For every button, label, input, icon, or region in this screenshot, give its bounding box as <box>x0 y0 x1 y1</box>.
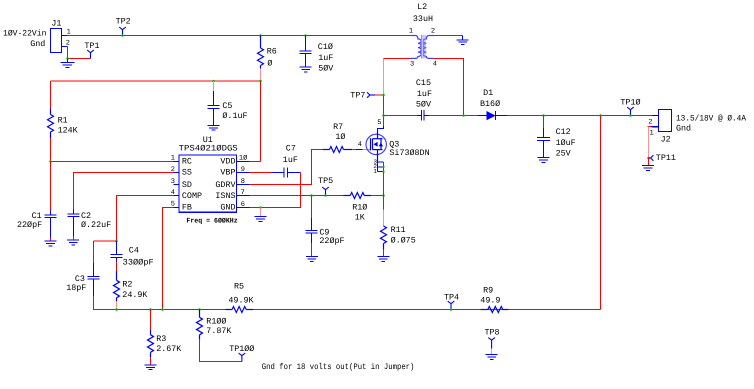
wire COMP jog to C3 <box>94 240 117 242</box>
connector J2 <box>652 110 672 132</box>
label J2 <box>661 135 671 145</box>
wire VDD pin row <box>250 161 261 163</box>
svg-text:1: 1 <box>650 129 654 137</box>
label R2 <box>122 279 132 289</box>
label 10uF <box>556 138 576 148</box>
svg-text:Ø.Ø75: Ø.Ø75 <box>391 235 416 245</box>
wire R3 bottom lead <box>150 357 152 365</box>
test point TP1 <box>87 50 94 58</box>
wire L2 pin2 to ground <box>434 35 463 37</box>
label C9 <box>319 227 329 237</box>
label 3300pF <box>123 257 154 267</box>
wire GND pin stub down <box>260 208 262 217</box>
label TP4 <box>444 292 459 302</box>
label 1K <box>355 213 366 223</box>
label Gnd <box>30 39 45 49</box>
svg-text:8: 8 <box>241 178 245 186</box>
svg-text:18pF: 18pF <box>66 283 86 293</box>
label GDRV <box>215 180 235 190</box>
label J1 pin2 <box>66 39 70 47</box>
test point TP2 <box>119 27 126 35</box>
svg-text:25V: 25V <box>556 149 571 159</box>
label TP10 <box>620 98 640 108</box>
test point TP7 <box>367 92 375 97</box>
svg-text:Gnd for 18 volts out(Put in Ju: Gnd for 18 volts out(Put in Jumper) <box>262 362 415 372</box>
svg-text:1uF: 1uF <box>283 155 298 165</box>
wire TP8 pin <box>491 349 493 355</box>
label L2 pin 4 <box>433 61 437 69</box>
test point TP4 <box>448 301 455 309</box>
svg-text:1ØuF: 1ØuF <box>556 138 576 148</box>
svg-text:1Ø: 1Ø <box>239 155 247 163</box>
ground TP8 <box>486 355 498 360</box>
capacitor C3 <box>88 263 100 296</box>
svg-text:C5: C5 <box>222 101 232 111</box>
label R6 <box>267 46 277 56</box>
resistor R11 <box>383 196 385 210</box>
label TP8 <box>485 327 500 337</box>
label 220pF <box>319 236 344 246</box>
capacitor C12 <box>543 116 545 129</box>
svg-text:R6: R6 <box>267 46 277 56</box>
test point TP5 <box>322 187 329 195</box>
wire R11 bottom lead <box>383 250 385 257</box>
label R5 <box>234 282 244 292</box>
node TP11 junction <box>647 157 650 160</box>
node R3 bus junction <box>149 308 152 311</box>
svg-text:Gnd: Gnd <box>30 39 45 49</box>
svg-text:COMP: COMP <box>182 191 202 201</box>
svg-text:7: 7 <box>241 189 245 197</box>
node C5 junction <box>212 80 215 83</box>
capacitor C15 <box>384 115 418 117</box>
label J1 pin1 <box>67 28 71 36</box>
label pin 3 <box>171 178 175 186</box>
label TP1 <box>84 41 99 51</box>
node TP5 junction <box>324 194 327 197</box>
resistor R1 <box>48 109 54 139</box>
ground C2 <box>67 240 79 245</box>
wire C2 bottom lead <box>73 237 75 241</box>
wire J1 pin2 to ground <box>68 47 91 59</box>
label U1 <box>203 135 213 145</box>
svg-text:Freq = 6ØØKHz: Freq = 6ØØKHz <box>186 217 237 225</box>
node GND junction <box>259 206 262 209</box>
wire source to R10 node <box>383 162 385 195</box>
wire C15 to L2 pin4 node <box>429 115 478 117</box>
label R1 <box>58 116 68 126</box>
svg-text:SS: SS <box>182 168 192 178</box>
label R10 <box>352 202 367 212</box>
wire C3 bottom to bus <box>94 296 226 310</box>
label Q3 <box>389 140 399 150</box>
svg-text:TP8: TP8 <box>485 327 500 337</box>
resistor R6 <box>258 36 264 69</box>
resistor R7 <box>323 147 352 153</box>
label 25V <box>556 149 571 159</box>
svg-text:1uF: 1uF <box>318 53 333 63</box>
label L2 <box>417 2 427 12</box>
svg-text:TP2: TP2 <box>116 17 131 27</box>
label R100 <box>206 316 226 326</box>
ground TP11 <box>642 166 654 171</box>
svg-text:Gnd: Gnd <box>676 124 691 134</box>
svg-text:2: 2 <box>648 118 652 126</box>
node TP2 junction <box>121 34 124 37</box>
svg-text:C1Ø: C1Ø <box>318 42 333 52</box>
label TP11 <box>656 153 676 163</box>
label C15 50V <box>416 100 431 110</box>
svg-text:1ØV-22Vin: 1ØV-22Vin <box>3 28 46 38</box>
svg-text:13.5/18V @ Ø.4A: 13.5/18V @ Ø.4A <box>676 113 747 123</box>
svg-text:J2: J2 <box>661 135 671 145</box>
node C12 junction <box>542 114 545 117</box>
svg-text:VBP: VBP <box>220 168 235 178</box>
svg-text:124K: 124K <box>58 126 79 136</box>
svg-text:1uF: 1uF <box>417 89 432 99</box>
resistor R2 <box>114 271 120 301</box>
label 0.22uF <box>81 220 111 230</box>
node TP4 junction <box>450 308 453 311</box>
label C3 <box>75 274 85 284</box>
svg-text:3: 3 <box>171 178 175 186</box>
label L2 pin 3 <box>410 61 414 69</box>
svg-text:TP1Ø: TP1Ø <box>620 98 640 108</box>
ground C1 <box>45 241 57 246</box>
resistor R100 <box>197 310 203 340</box>
svg-text:R11: R11 <box>391 225 406 235</box>
wire TP11 to ground <box>648 158 650 166</box>
label pin 9 <box>241 166 245 174</box>
label Gnd for 18 volts out <box>262 362 415 372</box>
node R6 bottom junction <box>259 80 262 83</box>
svg-text:R1: R1 <box>58 116 68 126</box>
label Q3 pin 1 <box>373 168 377 175</box>
label 220pF <box>17 220 42 230</box>
label R11 <box>391 225 406 235</box>
label Q3 pin 3 <box>373 158 377 165</box>
wire SS row <box>74 173 174 210</box>
label C12 <box>556 127 571 137</box>
svg-text:6: 6 <box>241 201 245 209</box>
svg-text:VDD: VDD <box>220 157 235 167</box>
test point TP11 <box>649 155 654 161</box>
wire R1 bottom to RC node <box>50 138 52 162</box>
svg-text:24.9K: 24.9K <box>122 290 148 300</box>
wire C1 bottom lead <box>50 238 52 241</box>
node C10 junction <box>304 34 307 37</box>
svg-text:Ø.22uF: Ø.22uF <box>81 220 111 230</box>
node FB bus junction <box>161 308 164 311</box>
resistor R9 <box>481 307 509 313</box>
svg-text:D1: D1 <box>483 88 493 98</box>
resistor R5 <box>225 307 253 313</box>
svg-text:Si73Ø8DN: Si73Ø8DN <box>389 148 429 158</box>
wire TP7 to drain riser <box>375 94 383 96</box>
wire R1 top lead <box>50 81 52 109</box>
label GND <box>220 203 235 213</box>
label 7.87K <box>206 326 232 336</box>
capacitor C7 <box>272 167 301 177</box>
wire gate pin light <box>363 149 371 151</box>
label pin 2 <box>171 166 175 174</box>
svg-text:R3: R3 <box>156 334 166 344</box>
svg-text:B16Ø: B16Ø <box>480 99 500 109</box>
label C7 <box>286 144 296 154</box>
wire C1 top lead <box>50 162 52 211</box>
test point TP100 <box>239 353 246 361</box>
label TPS40210DGS <box>179 144 238 154</box>
node TP10 junction <box>629 114 632 117</box>
ground U1 <box>255 217 267 222</box>
wire FB row <box>163 208 174 310</box>
svg-text:5ØV: 5ØV <box>416 100 431 110</box>
connector J1 <box>51 29 68 53</box>
svg-text:22ØpF: 22ØpF <box>319 236 344 246</box>
svg-text:ISNS: ISNS <box>215 191 235 201</box>
label COMP <box>182 191 202 201</box>
label Gnd out <box>676 124 691 134</box>
label pin 8 <box>241 178 245 186</box>
label 2.67K <box>156 344 182 354</box>
wire drain riser lower <box>383 95 385 126</box>
svg-text:GND: GND <box>220 203 235 213</box>
label SD <box>182 180 192 190</box>
wire C4 to R2 <box>116 262 118 272</box>
label TP2 <box>116 17 131 27</box>
node RC junction <box>49 160 52 163</box>
label FB <box>182 203 192 213</box>
capacitor C9 <box>311 196 313 219</box>
label 50V <box>318 64 333 74</box>
label SS <box>182 168 192 178</box>
wire ISNS row <box>250 195 344 197</box>
svg-text:1K: 1K <box>355 213 366 223</box>
label L2 pin 1 <box>409 27 413 35</box>
wire C9 bottom lead <box>311 243 313 257</box>
label TP100 <box>229 344 254 354</box>
node C9 junction <box>310 194 313 197</box>
L2 core lines <box>421 35 425 59</box>
svg-text:R5: R5 <box>234 282 244 292</box>
svg-text:5ØV: 5ØV <box>318 64 333 74</box>
label pin 1 <box>171 155 175 163</box>
node TP7 junction <box>382 94 385 97</box>
ground J1 <box>61 59 75 68</box>
svg-text:4: 4 <box>358 141 362 149</box>
svg-text:R9: R9 <box>483 285 493 295</box>
capacitor C2 <box>68 210 80 237</box>
label Freq = 600KHz <box>186 217 237 225</box>
wire GND pin row <box>250 207 261 209</box>
svg-text:7.87K: 7.87K <box>206 326 232 336</box>
svg-text:9: 9 <box>241 166 245 174</box>
label pin 5 <box>171 201 175 209</box>
source pin stubs <box>378 162 384 172</box>
svg-text:Ø: Ø <box>267 58 272 68</box>
node R100 bus junction <box>198 308 201 311</box>
node source pin 2 <box>382 166 384 168</box>
wire RC row <box>51 161 174 163</box>
wire VBP row <box>250 172 272 174</box>
label C15 1uF <box>417 89 432 99</box>
label 49.9K <box>228 295 254 305</box>
wire VDD riser <box>260 81 262 162</box>
wire R100 to TP100 <box>200 340 242 362</box>
node COMP junction <box>115 240 118 243</box>
svg-text:2.67K: 2.67K <box>156 344 182 354</box>
transistor Q3 <box>366 134 386 154</box>
capacitor C10 <box>300 36 312 68</box>
label Q3 pin 2 <box>373 163 377 170</box>
wire R2 bottom pin <box>116 301 118 309</box>
label 124K <box>58 126 79 136</box>
svg-text:1: 1 <box>171 155 175 163</box>
wire feedback riser <box>600 116 602 310</box>
label 0.1uF <box>222 111 247 121</box>
svg-text:R7: R7 <box>333 122 343 132</box>
svg-text:22ØpF: 22ØpF <box>17 220 42 230</box>
svg-text:33ØØpF: 33ØØpF <box>123 257 154 267</box>
wire R7 to gate <box>352 149 356 151</box>
label C4 <box>129 245 139 255</box>
ground C5 <box>208 125 220 130</box>
label C10 <box>318 42 333 52</box>
label L2 pin 2 <box>431 27 435 35</box>
test point TP10 <box>627 107 634 115</box>
label 0 <box>267 58 272 68</box>
wire gate lead blue <box>356 149 363 151</box>
op-amp U1 TPS40210DGS body <box>179 155 237 212</box>
label R7 <box>333 122 343 132</box>
node source pin 1 <box>382 170 384 172</box>
label 13.5/18V @ 0.4A <box>676 113 747 123</box>
label 1uF <box>318 53 333 63</box>
label ISNS <box>215 191 235 201</box>
ground L2 <box>457 36 469 45</box>
svg-text:R1Ø: R1Ø <box>352 202 367 212</box>
svg-text:5: 5 <box>377 119 381 127</box>
svg-text:FB: FB <box>182 203 192 213</box>
label RC <box>182 157 192 167</box>
svg-text:1Ø: 1Ø <box>335 132 345 142</box>
label 33uH <box>413 14 433 24</box>
ground C9 <box>306 257 318 262</box>
label B160 <box>480 99 500 109</box>
label TP7 <box>350 91 365 101</box>
svg-text:1: 1 <box>409 27 413 35</box>
pin 5 drain elbow <box>378 126 384 131</box>
svg-text:2: 2 <box>171 166 175 174</box>
label Q3 pin 5 <box>377 119 381 127</box>
capacitor C1 <box>45 211 57 238</box>
svg-text:L2: L2 <box>417 2 427 12</box>
svg-text:J1: J1 <box>51 19 61 29</box>
svg-text:TP11: TP11 <box>656 153 676 163</box>
label TP5 <box>318 176 333 186</box>
svg-text:R1ØØ: R1ØØ <box>206 316 226 326</box>
label Q3 pin 4 <box>358 141 362 149</box>
svg-text:1: 1 <box>373 168 377 175</box>
inductor L2 left winding <box>411 36 422 59</box>
label C1 <box>32 211 42 221</box>
svg-text:2: 2 <box>66 39 70 47</box>
svg-text:Ø.1uF: Ø.1uF <box>222 111 247 121</box>
label VBP <box>220 168 235 178</box>
svg-text:C12: C12 <box>556 127 571 137</box>
label pin 7 <box>241 189 245 197</box>
svg-text:GDRV: GDRV <box>215 180 235 190</box>
svg-text:RC: RC <box>182 157 192 167</box>
svg-text:33uH: 33uH <box>413 14 433 24</box>
svg-text:TP1: TP1 <box>84 41 99 51</box>
svg-text:2: 2 <box>431 27 435 35</box>
svg-text:R2: R2 <box>122 279 132 289</box>
test point TP8 <box>488 338 495 349</box>
wire L2 pin3 row <box>384 58 411 60</box>
pin stubs U1 left <box>174 162 180 208</box>
label R7 10 <box>335 132 345 142</box>
wire drain riser upper pin <box>383 59 385 96</box>
capacitor C4 <box>111 241 123 261</box>
svg-text:TPS4Ø21ØDGS: TPS4Ø21ØDGS <box>179 144 238 154</box>
wire J2 pin1 down <box>648 126 652 128</box>
svg-text:C7: C7 <box>286 144 296 154</box>
ground C12 <box>538 158 550 163</box>
wire R10 to R11 node <box>371 195 383 197</box>
label pin 6 <box>241 201 245 209</box>
label J2 pin 2 <box>648 118 652 126</box>
wire C3 top lead <box>93 241 95 263</box>
wire GDRV row <box>250 150 324 185</box>
svg-text:3: 3 <box>410 61 414 69</box>
wire COMP row <box>117 196 174 242</box>
label 18pF <box>66 283 86 293</box>
wire output row <box>507 115 652 117</box>
wire VDD rail horizontal <box>51 80 261 82</box>
pin stubs U1 right <box>237 162 250 208</box>
capacitor C5 <box>213 81 215 91</box>
wire C7 to GND net <box>261 173 301 208</box>
ground R3 <box>145 365 157 370</box>
label J1 <box>51 19 61 29</box>
wire L2 pin4 riser <box>434 59 464 116</box>
svg-text:C15: C15 <box>416 78 431 88</box>
label C7 1uF <box>283 155 298 165</box>
wire Vin top rail <box>68 35 411 37</box>
label VDD <box>220 157 235 167</box>
label 49.9 <box>480 295 500 305</box>
label pin 4 <box>171 189 175 197</box>
node feedback riser junction <box>599 114 602 117</box>
node L2 pin4 junction <box>462 114 465 117</box>
resistor R10 <box>343 193 371 199</box>
svg-text:TP7: TP7 <box>350 91 365 101</box>
label R3 <box>156 334 166 344</box>
svg-text:TP4: TP4 <box>444 292 459 302</box>
svg-text:TP5: TP5 <box>318 176 333 186</box>
inductor L2 right winding <box>423 36 434 59</box>
ground C10 <box>300 67 312 72</box>
svg-text:SD: SD <box>182 180 192 190</box>
node J1 gnd junction <box>66 57 69 60</box>
label Si7308DN <box>389 148 429 158</box>
svg-text:49.9K: 49.9K <box>228 295 254 305</box>
wire R6 bottom pin <box>260 69 262 82</box>
label 0.075 <box>391 235 416 245</box>
label J2 pin 1 <box>650 129 654 137</box>
svg-text:49.9: 49.9 <box>480 295 500 305</box>
